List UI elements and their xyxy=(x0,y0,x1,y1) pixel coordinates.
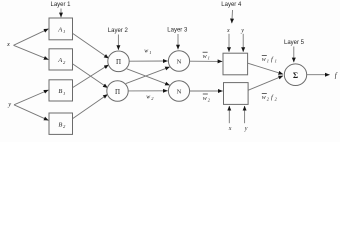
svg-text:1: 1 xyxy=(63,91,65,96)
node sigma sum xyxy=(284,64,306,86)
wire P2 to N2 w2 xyxy=(128,90,167,92)
svg-text:w: w xyxy=(144,49,148,55)
node A2 xyxy=(49,49,73,70)
node B1 xyxy=(49,80,73,101)
node P2 product xyxy=(107,81,128,102)
wire Layer 3 arrow xyxy=(177,34,179,49)
wire Layer 2 arrow xyxy=(117,35,119,50)
node square1 xyxy=(223,53,248,75)
node A1 xyxy=(49,18,73,40)
svg-text:B: B xyxy=(58,88,62,95)
node P1 product xyxy=(108,51,129,72)
svg-text:Layer 1: Layer 1 xyxy=(50,2,71,8)
svg-text:w: w xyxy=(203,54,207,60)
svg-text:w: w xyxy=(262,57,266,63)
svg-text:B: B xyxy=(58,122,62,129)
wire Layer 4 arrow xyxy=(231,10,234,23)
wire x to A2 xyxy=(14,45,49,59)
svg-text:1: 1 xyxy=(275,59,277,64)
node N1 norm xyxy=(168,51,189,72)
wire square1 to sigma wbar1 f1 xyxy=(248,63,283,74)
svg-text:Layer 4: Layer 4 xyxy=(221,2,242,8)
node square2 xyxy=(224,83,249,105)
svg-text:Layer 2: Layer 2 xyxy=(108,28,129,34)
svg-text:w: w xyxy=(262,95,266,101)
wire N2 to square2 wbar2 xyxy=(190,90,223,92)
wire y to B2 xyxy=(14,105,48,121)
wire sigma to f output xyxy=(307,74,330,76)
wire P1 to N2 xyxy=(127,69,170,85)
wire y into square1 top xyxy=(242,34,244,52)
label wbar2 xyxy=(203,94,211,102)
node N2 norm xyxy=(168,81,189,102)
wire y to B1 xyxy=(14,90,48,105)
wire x to A1 xyxy=(14,29,49,46)
svg-text:1: 1 xyxy=(208,56,210,61)
wire square2 to sigma wbar2 f2 xyxy=(248,76,283,90)
svg-text:x: x xyxy=(6,41,10,48)
wire Layer 1 arrow xyxy=(60,9,62,18)
svg-text:1: 1 xyxy=(63,29,65,34)
svg-text:y: y xyxy=(244,126,248,132)
wire B1 to P1 xyxy=(73,65,109,88)
svg-text:Layer 3: Layer 3 xyxy=(167,28,188,34)
wire A1 to P1 xyxy=(73,34,109,59)
wire P1 to N1 w1 xyxy=(129,60,167,62)
svg-text:x: x xyxy=(226,28,230,34)
svg-text:w: w xyxy=(146,94,150,100)
svg-text:x: x xyxy=(228,126,232,132)
wire x into square2 bottom xyxy=(228,106,230,123)
label wbar1 f1 xyxy=(262,55,277,63)
svg-text:A: A xyxy=(57,27,62,34)
svg-text:Layer 5: Layer 5 xyxy=(284,40,305,46)
node B2 xyxy=(49,113,73,134)
svg-text:N: N xyxy=(177,89,182,96)
svg-text:y: y xyxy=(7,101,11,108)
svg-text:w: w xyxy=(203,96,207,102)
svg-text:1: 1 xyxy=(267,59,269,64)
svg-text:Π: Π xyxy=(115,88,120,96)
wire B2 to P2 xyxy=(73,94,108,118)
svg-text:y: y xyxy=(240,28,244,34)
wire y into square2 bottom xyxy=(244,106,246,123)
svg-text:Σ: Σ xyxy=(293,71,298,80)
svg-text:N: N xyxy=(177,59,182,66)
wire x into square1 top xyxy=(228,34,230,52)
wire Layer 5 arrow xyxy=(293,47,295,63)
svg-text:1: 1 xyxy=(149,50,151,55)
label wbar2 f2 xyxy=(262,94,278,102)
svg-text:A: A xyxy=(57,57,62,64)
wire P2 to N1 xyxy=(126,67,170,84)
wire N1 to square1 wbar1 xyxy=(190,60,223,62)
label wbar1 xyxy=(203,52,210,60)
wire A2 to P2 xyxy=(73,64,108,88)
svg-text:Π: Π xyxy=(116,58,121,66)
